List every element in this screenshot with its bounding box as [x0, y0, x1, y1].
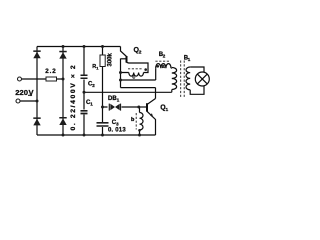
svg-text:2.2: 2.2: [45, 68, 56, 75]
svg-text:2: 2: [139, 50, 142, 56]
svg-text:1: 1: [117, 98, 120, 103]
svg-text:2: 2: [92, 83, 95, 88]
svg-text:1: 1: [90, 101, 93, 106]
svg-text:c: c: [132, 75, 135, 81]
svg-text:0. 013: 0. 013: [108, 128, 126, 134]
svg-text:~: ~: [28, 91, 32, 100]
svg-text:220: 220: [15, 88, 28, 97]
svg-text:b: b: [131, 117, 135, 123]
svg-text:1: 1: [188, 57, 191, 62]
svg-text:2: 2: [163, 54, 166, 59]
svg-text:1: 1: [96, 65, 99, 70]
svg-text:3: 3: [116, 122, 119, 127]
svg-text:1: 1: [166, 107, 169, 113]
svg-text:0. 22/400V × 2: 0. 22/400V × 2: [70, 64, 77, 131]
svg-text:300k: 300k: [108, 52, 114, 66]
